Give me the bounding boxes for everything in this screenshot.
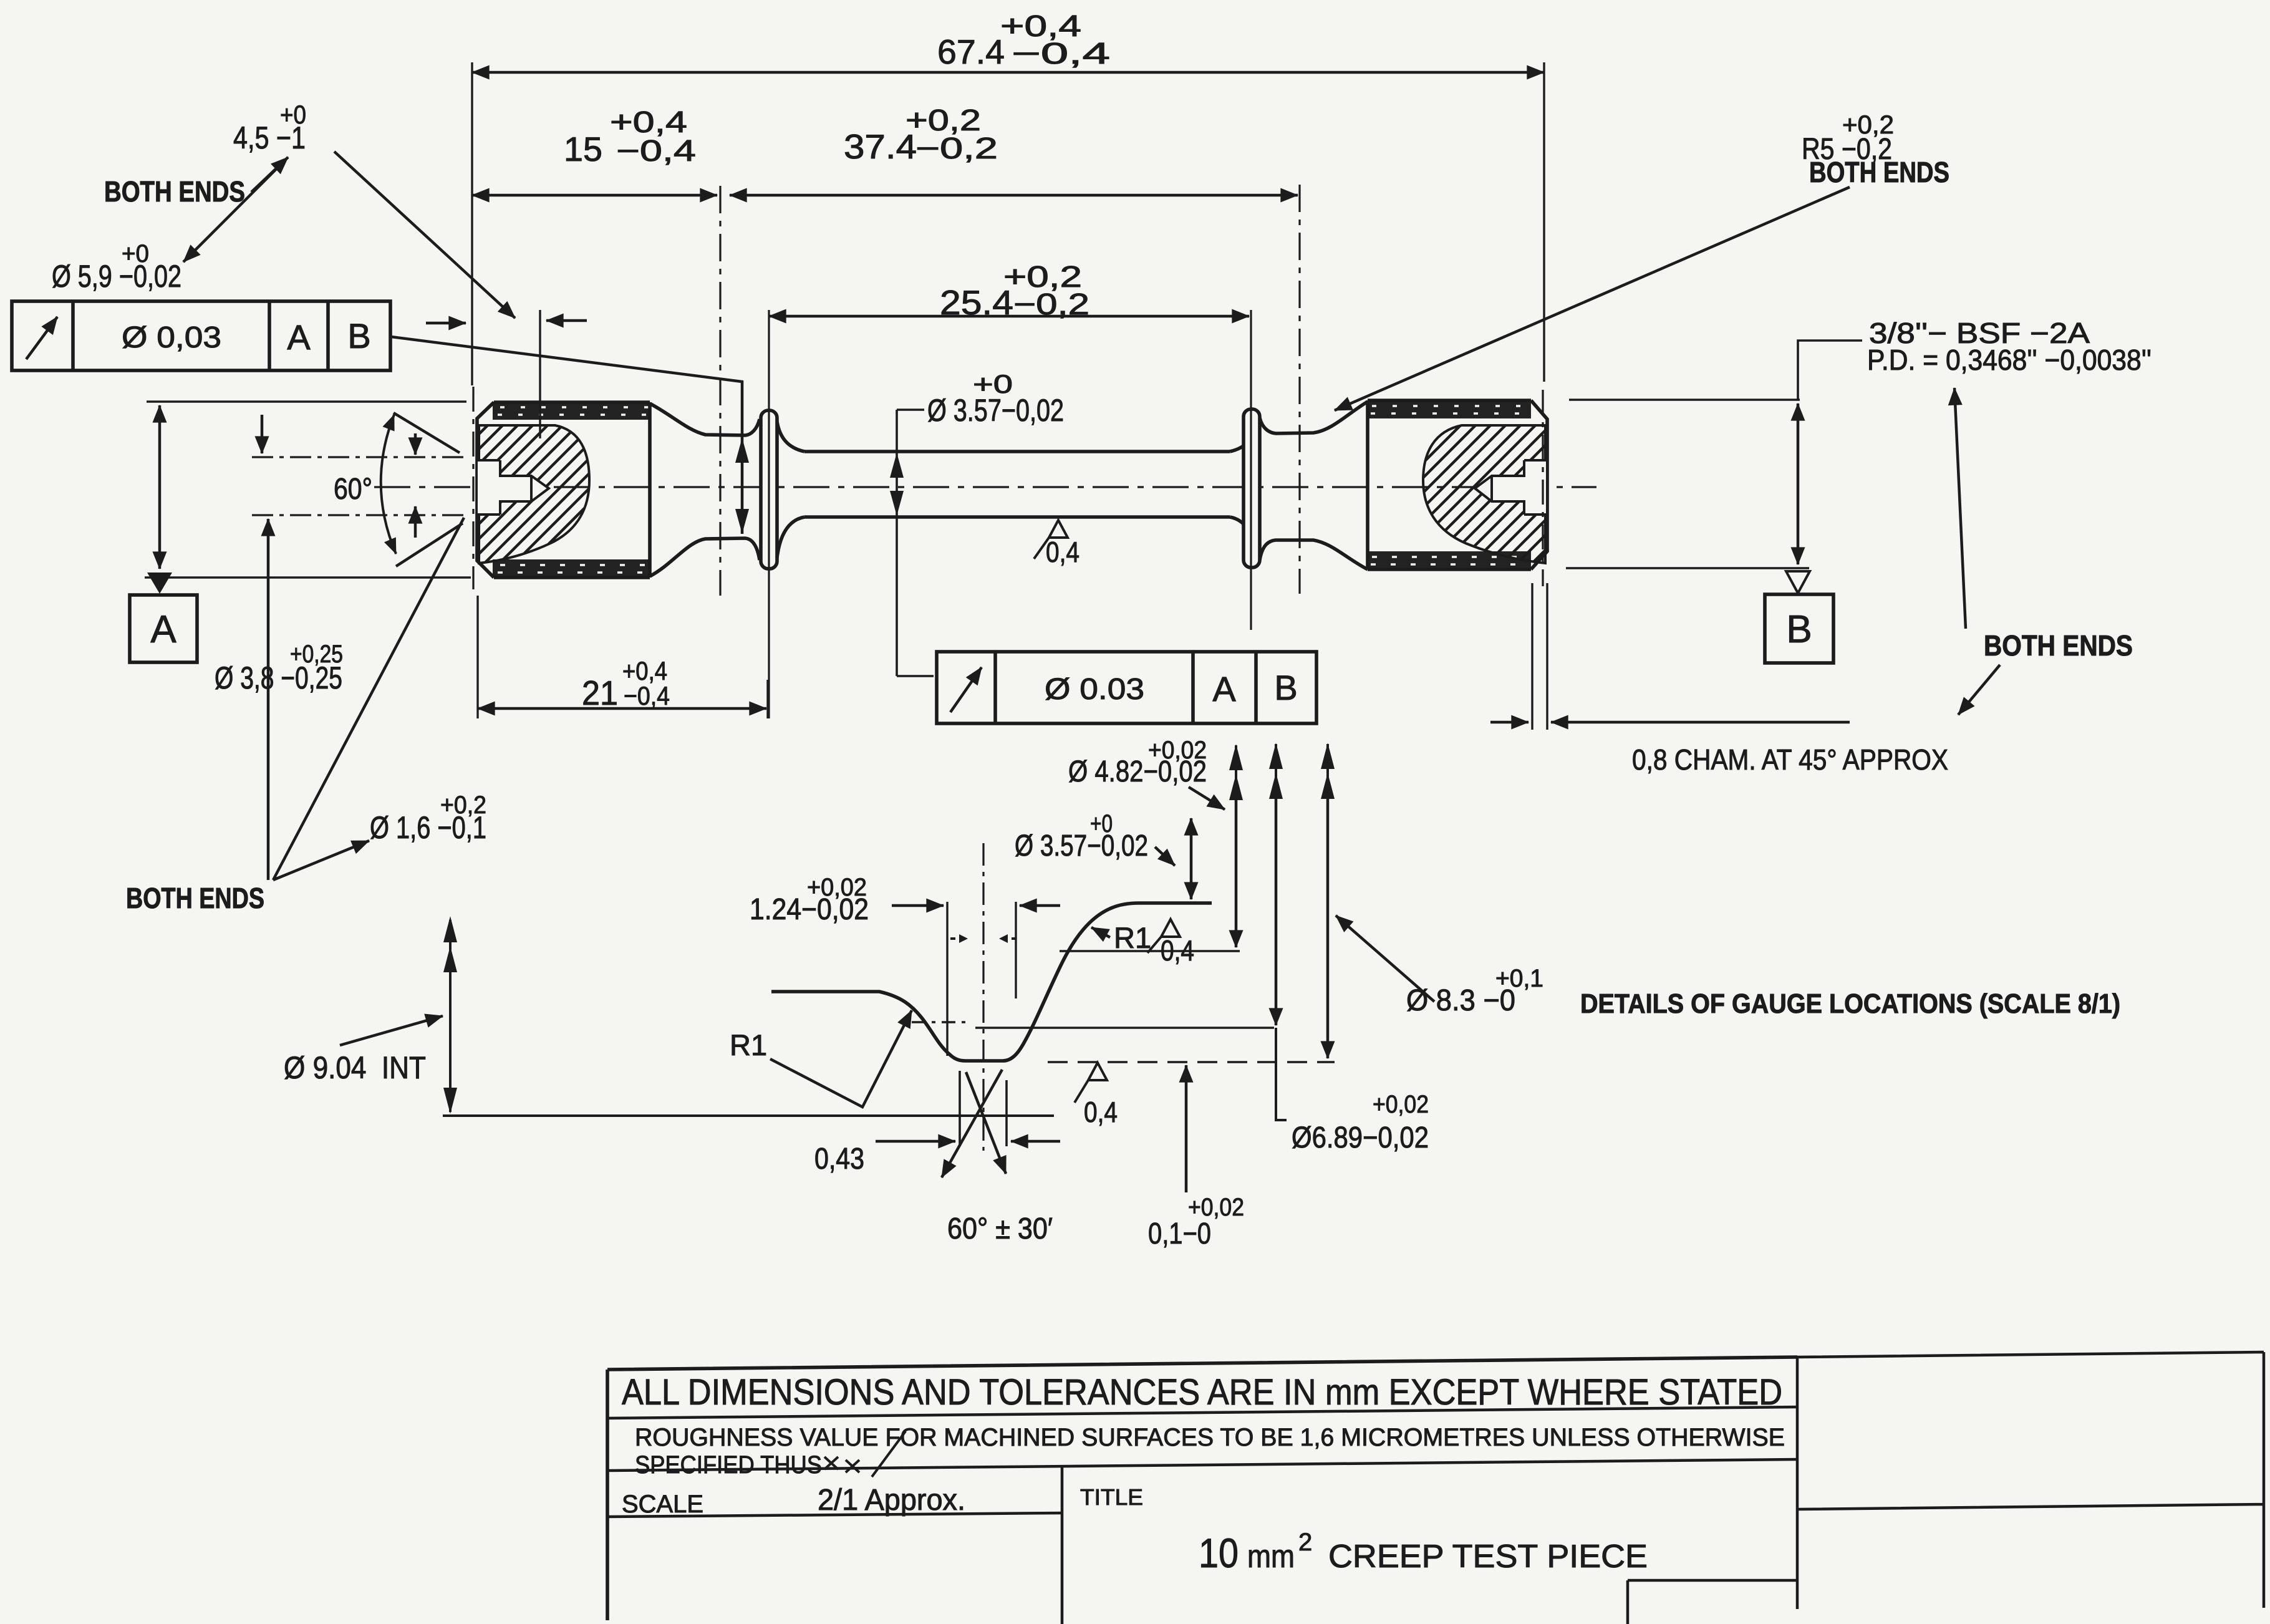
title inner cell [1628, 1580, 1797, 1624]
left face hidden line [472, 387, 474, 589]
arrow both ends to chamfer [1958, 665, 2000, 715]
svg-text:BOTH ENDS: BOTH ENDS [104, 175, 245, 208]
svg-text:A: A [1212, 669, 1236, 708]
dia 3.57 detail vertical [1015, 810, 1191, 899]
svg-text:0,8 CHAM. AT 45° APPROX: 0,8 CHAM. AT 45° APPROX [1632, 743, 1948, 776]
surface finish symbol detail upper [1147, 919, 1194, 967]
svg-text:DETAILS OF GAUGE LOCATIONS (SC: DETAILS OF GAUGE LOCATIONS (SCALE 8/1) [1580, 988, 2120, 1019]
left ridge to gauge fillet bottom [777, 517, 804, 558]
dia 8.3 vertical [1321, 743, 1543, 1058]
dim 67.4 [472, 10, 1544, 72]
title block right column [1797, 1352, 2264, 1609]
svg-text:B: B [1786, 608, 1812, 651]
dia 3.8 arrows [261, 415, 264, 453]
left head outline [477, 402, 650, 578]
svg-text:0,4: 0,4 [1046, 536, 1079, 568]
groove root dashed line [1048, 1061, 1335, 1063]
extension line right face [1543, 62, 1545, 382]
4.5 depth arrows [426, 322, 466, 325]
detail profile [771, 903, 1212, 1061]
svg-text:−0,4: −0,4 [1012, 37, 1110, 70]
dim 0.1 arrow [1185, 1065, 1188, 1192]
thread label [1867, 317, 2152, 376]
right ridge centre line [1250, 310, 1252, 630]
dim dia 5.9 extension lines [145, 402, 471, 578]
drawing title [1199, 1529, 1648, 1576]
extension line 37.4 right boundary [1298, 185, 1300, 594]
svg-text:Ø 5,9 −0,02: Ø 5,9 −0,02 [52, 259, 181, 294]
left head thread band bottom [493, 559, 650, 578]
dim 1.24 label [750, 874, 869, 926]
svg-text:Ø 0.03: Ø 0.03 [1045, 673, 1144, 706]
svg-text:−0,2: −0,2 [915, 132, 998, 165]
right ridge fillet top [1230, 420, 1257, 452]
dia 1.6 arrows [414, 433, 417, 455]
svg-text:67.4: 67.4 [937, 32, 1005, 71]
left head thread band top [493, 402, 650, 420]
dim 1.24 extension lines [947, 902, 1016, 1056]
svg-text:60°: 60° [334, 473, 372, 506]
dim 15 [472, 106, 717, 195]
title block row2 bottom [607, 1459, 1797, 1471]
dia 1.6 label [370, 791, 486, 845]
svg-text:ALL DIMENSIONS AND TOLERANCES: ALL DIMENSIONS AND TOLERANCES ARE IN mm … [622, 1372, 1782, 1413]
micro marks [950, 934, 1017, 943]
vee leg right [966, 1072, 1006, 1174]
groove centre line [982, 843, 984, 1151]
title block scale row bottom [607, 1513, 1063, 1517]
svg-text:BOTH ENDS: BOTH ENDS [1984, 629, 2133, 662]
svg-text:CREEP TEST PIECE: CREEP TEST PIECE [1328, 1539, 1648, 1575]
svg-text:0,4: 0,4 [1161, 934, 1194, 967]
right head outline [1368, 400, 1547, 569]
dim 21 [478, 596, 768, 718]
svg-text:Ø 3.57−0,02: Ø 3.57−0,02 [1015, 829, 1148, 863]
main centerline [374, 486, 1596, 488]
svg-text:+0,02: +0,02 [1373, 1091, 1429, 1118]
svg-text:R1: R1 [730, 1028, 767, 1061]
title block row1 bottom [607, 1407, 1797, 1418]
60 deg arc [381, 415, 396, 554]
svg-text:Ø 4.82−0,02: Ø 4.82−0,02 [1068, 755, 1207, 788]
svg-text:Ø 0,03: Ø 0,03 [122, 321, 221, 354]
title block scale-title divider [1061, 1466, 1064, 1624]
left head hatched section [479, 425, 589, 563]
thread dim extension lines [1566, 400, 1809, 568]
svg-text:0,4: 0,4 [1084, 1096, 1118, 1128]
dim 37.4 [730, 104, 1298, 195]
dim 0.1 label [1148, 1194, 1244, 1250]
leader 9.04 [340, 1016, 443, 1045]
arrow both ends to 4.5 [251, 157, 288, 192]
svg-text:60° ± 30′: 60° ± 30′ [947, 1212, 1053, 1245]
dia 6.89 vertical [1269, 743, 1429, 1154]
svg-text:A: A [150, 608, 176, 651]
datum A box [130, 595, 197, 662]
4.5 depth label [233, 100, 306, 155]
detail shelf line [1060, 950, 1240, 952]
60 deg wedge lines [394, 413, 463, 566]
svg-text:BOTH ENDS: BOTH ENDS [126, 882, 264, 914]
svg-text:−0,4: −0,4 [616, 135, 696, 168]
datum A triangle [147, 573, 172, 594]
right neck top profile [1260, 402, 1368, 433]
svg-text:2/1 Approx.: 2/1 Approx. [818, 1484, 965, 1517]
svg-text:R1: R1 [1114, 921, 1151, 954]
roughness tick marks [824, 1431, 906, 1477]
right head hatched section [1423, 425, 1545, 563]
gauge section top line [804, 450, 1230, 453]
left neck top profile [650, 404, 760, 435]
R5 label [1802, 110, 1949, 188]
extension line 15-37.4 boundary [719, 186, 721, 596]
vee leg left [942, 1070, 1002, 1177]
svg-text:0,43: 0,43 [814, 1143, 864, 1176]
svg-text:−0,2: −0,2 [1013, 288, 1089, 321]
svg-text:Ø 3.57−0,02: Ø 3.57−0,02 [927, 393, 1064, 428]
title block outer [607, 1357, 1797, 1620]
svg-text:BOTH ENDS: BOTH ENDS [1809, 156, 1949, 188]
svg-text:2: 2 [1298, 1529, 1312, 1556]
right head thread band top [1368, 400, 1531, 418]
left ridge to gauge fillet top [777, 422, 804, 452]
gauge section bottom line [804, 515, 1230, 519]
svg-text:4,5 −1: 4,5 −1 [233, 120, 306, 155]
svg-text:1.24−0,02: 1.24−0,02 [750, 893, 869, 926]
R1 right arrow [1091, 927, 1110, 937]
svg-text:Ø 3,8 −0,25: Ø 3,8 −0,25 [215, 660, 342, 695]
arrow both ends to PD [1954, 388, 1966, 629]
svg-text:0,1−0: 0,1−0 [1148, 1217, 1211, 1250]
svg-text:25.4: 25.4 [940, 283, 1013, 322]
dia 3.57 gauge arrows [890, 369, 1064, 676]
right gauge ridge flange [1244, 409, 1260, 568]
thread OD arrows [1797, 404, 1800, 564]
thread leader [1798, 341, 1862, 399]
svg-text:mm: mm [1247, 1539, 1295, 1575]
svg-text:15: 15 [564, 130, 602, 168]
surface finish symbol gauge [1034, 520, 1079, 568]
chamfer arrows [1490, 721, 1529, 724]
arrow 4.5 to dia 5.9 [183, 163, 283, 262]
chamfer extension lines [1532, 583, 1547, 730]
dim 1.24 arrows [892, 904, 944, 907]
left neck bottom profile [650, 538, 760, 576]
feature control frame 1 [12, 301, 390, 370]
leader R5 to fillet [1335, 187, 1850, 410]
svg-text:Ø 9.04 INT: Ø 9.04 INT [284, 1050, 426, 1085]
dia 3.8 counterbore extension lines [252, 457, 469, 515]
dia 9.04 arrows [443, 916, 457, 1114]
datum B triangle [1786, 571, 1810, 593]
svg-text:−0,4: −0,4 [624, 681, 670, 710]
dim 25.4 [769, 261, 1249, 322]
groove entry dash-dot [912, 1021, 968, 1023]
svg-text:Ø 8.3 −0: Ø 8.3 −0 [1406, 984, 1515, 1017]
right ridge fillet bottom [1230, 517, 1257, 559]
svg-text:B: B [347, 316, 370, 355]
left ridge centre line [768, 310, 770, 718]
dim 0.43 arrows [876, 1140, 955, 1143]
svg-text:21: 21 [582, 674, 618, 712]
leader to countersink [273, 518, 464, 880]
R1 leader left [770, 1010, 912, 1107]
right head thread band bottom [1368, 551, 1531, 569]
dia 3.8 label [215, 640, 343, 695]
dia 1.6 leader to text [273, 841, 369, 880]
dim 0.43 ticks [932, 1071, 1007, 1146]
leader FCF1 to neck [391, 337, 749, 534]
dia 4.82 vertical [1068, 737, 1243, 947]
svg-text:10: 10 [1199, 1530, 1239, 1576]
dim dia 5.9 [52, 240, 181, 569]
svg-text:Ø6.89−0,02: Ø6.89−0,02 [1292, 1121, 1429, 1154]
extension line left face [471, 62, 473, 385]
detail baseline [443, 1114, 1054, 1117]
svg-text:Ø 1,6 −0,1: Ø 1,6 −0,1 [370, 810, 486, 845]
left head centre hole cutout [478, 460, 549, 515]
svg-text:B: B [1274, 668, 1297, 707]
datum B box [1765, 594, 1833, 663]
left gauge ridge flange [761, 410, 777, 569]
leader 4.5 to countersink depth [334, 152, 515, 318]
svg-text:P.D. = 0,3468'' −0,0038'': P.D. = 0,3468'' −0,0038'' [1867, 344, 2152, 376]
4.5 depth extension line [539, 310, 541, 438]
svg-text:SCALE: SCALE [622, 1491, 703, 1518]
surface finish symbol detail lower [1075, 1063, 1118, 1128]
svg-text:ROUGHNESS VALUE FOR MACHINED S: ROUGHNESS VALUE FOR MACHINED SURFACES TO… [635, 1424, 1785, 1451]
right face hidden line [1542, 390, 1543, 586]
svg-text:TITLE: TITLE [1080, 1484, 1143, 1510]
feature control frame 2 [897, 652, 1316, 723]
svg-text:SPECIFIED THUS: SPECIFIED THUS [635, 1451, 822, 1479]
svg-text:A: A [287, 317, 311, 357]
right neck bottom profile [1260, 540, 1368, 569]
level line 6.89 [975, 1027, 1274, 1029]
right head centre hole cutout [1475, 460, 1546, 515]
